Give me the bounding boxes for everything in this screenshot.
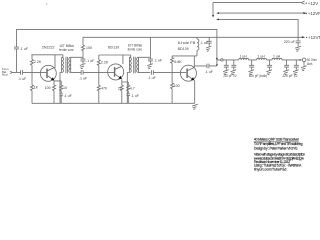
svg-text:2.2K: 2.2K — [34, 60, 42, 64]
node +12V junction dot — [212, 15, 214, 17]
svg-text:220 uF: 220 uF — [284, 40, 296, 44]
svg-text:1 uH: 1 uH — [273, 54, 281, 58]
node LPF input junction dots — [216, 58, 218, 66]
label 1 uH L2 — [258, 54, 266, 58]
label 1 uH L1 — [240, 54, 248, 58]
capacitor 220uF on +12VT — [295, 37, 301, 51]
resistor 22 stage2 emitter — [120, 85, 123, 103]
label 1K — [34, 85, 39, 89]
svg-text:.1 uF: .1 uF — [148, 76, 157, 80]
svg-text:TX RF amplifiers, LPF and T/R: TX RF amplifiers, LPF and T/R switching — [254, 142, 303, 146]
label 470 — [101, 86, 107, 90]
svg-text:Design by : Peter Parker VK3YE: Design by : Peter Parker VK3YE — [254, 147, 298, 151]
capacitor .1uF input coupling — [21, 70, 23, 75]
wire stage3 collector top — [172, 56, 197, 68]
capacitor 220pF C4b — [293, 60, 299, 75]
capacitor .1uF coupling stage1-2 — [81, 70, 83, 75]
label +12V — [306, 1, 319, 6]
label .1 uF stage1 emitter — [64, 94, 73, 98]
svg-text:Mod.: Mod. — [2, 73, 8, 77]
svg-text:+12VT: +12VT — [308, 35, 320, 40]
capacitor .1uF rail bypass left — [14, 47, 19, 72]
svg-text:22: 22 — [118, 86, 122, 90]
svg-text:ferrite core: ferrite core — [128, 47, 143, 51]
antenna output arrowhead — [300, 59, 303, 61]
label .1 uF output — [205, 70, 214, 74]
svg-text:BD139: BD139 — [108, 45, 119, 49]
wire +12VR line — [218, 12, 304, 14]
label +12VT — [306, 35, 320, 40]
+12VR right arrowhead — [303, 12, 306, 14]
resistor 1K stage1 base — [31, 72, 34, 103]
label .1 uF coupling 1-2 — [79, 76, 88, 80]
node From Bal Mod input arrow — [10, 71, 12, 73]
svg-text:470: 470 — [101, 86, 107, 90]
svg-text:1K: 1K — [34, 85, 39, 89]
inductor L1 1uH — [239, 58, 249, 60]
resistor 2.2K stage2 feedback — [97, 55, 100, 72]
wire stage1 collector top — [31, 55, 63, 68]
label 820 pF both — [249, 74, 267, 78]
svg-text:4.7: 4.7 — [130, 86, 135, 90]
resistor 2.2K stage1 feedback — [31, 55, 34, 73]
wire +12VT upper line — [218, 19, 299, 37]
svg-text:BD139: BD139 — [178, 47, 189, 51]
resistor 6.8K stage3 feedback — [171, 56, 174, 73]
label .1 uF bypass — [20, 47, 29, 51]
label 220 uF — [284, 40, 296, 44]
transistor Q1 2N2222 — [40, 65, 56, 81]
label 10T Bifilar ferrite core T1 — [59, 44, 75, 52]
capacitor 220pF C1a — [223, 60, 229, 75]
capacitor 820pF C2 — [249, 60, 255, 75]
resistor 10 stage1 emitter — [60, 85, 63, 93]
label 10 — [63, 86, 67, 90]
Q3 emitter arrow — [191, 77, 195, 80]
label .1 uF coupling 2-3 — [148, 76, 157, 80]
svg-text:.1 uF: .1 uF — [64, 94, 73, 98]
wire +12V top line — [213, 3, 302, 16]
svg-text:100: 100 — [174, 84, 180, 88]
svg-text:.1 uF: .1 uF — [86, 59, 95, 63]
resistor 100 stage3 base — [171, 72, 174, 103]
svg-text:100: 100 — [45, 86, 51, 90]
capacitor .1uF coupling stage2-3 — [151, 70, 153, 75]
wire vertical into LPF — [216, 58, 218, 66]
resistor 100 T1 supply — [82, 37, 85, 57]
svg-text:220 pF X2: 220 pF X2 — [223, 74, 236, 78]
wire LPF main line — [217, 59, 300, 61]
Q1 emitter arrow — [51, 77, 55, 80]
label .1 uF stage2 emitter — [131, 94, 140, 98]
wire input line — [13, 71, 47, 73]
transformer T1 10T bifilar — [60, 55, 83, 104]
label 100 stage3 — [174, 84, 180, 88]
svg-text:1 uH: 1 uH — [240, 54, 248, 58]
label 6.8K — [174, 60, 182, 64]
capacitor .1uF output coupling — [207, 64, 209, 69]
inductor L2 1uH — [257, 58, 267, 60]
node TX out connector circle — [221, 59, 223, 61]
wire Q2 emitter — [122, 79, 129, 85]
title text block — [254, 138, 305, 172]
wire stage2 collector top — [99, 55, 131, 64]
ground bus bottom — [32, 102, 195, 104]
label 50 Ohm Ant — [307, 58, 317, 66]
svg-text:1 uH: 1 uH — [258, 54, 266, 58]
transistor Q2 BD139 — [108, 64, 124, 80]
capacitor 220pF C1b — [231, 60, 237, 75]
svg-text:6.8K: 6.8K — [174, 60, 182, 64]
stray speck top left — [46, 4, 47, 5]
inductor 6-hole FB choke — [197, 37, 199, 56]
wire Q1 emitter — [54, 80, 61, 85]
label BD139 stage2 — [108, 45, 119, 49]
capacitor .1uF stage1 emitter — [60, 94, 63, 103]
label 22 — [118, 86, 122, 90]
svg-text:40 Meters QRP SSB Transceiver: 40 Meters QRP SSB Transceiver — [254, 138, 300, 142]
antenna connector circle — [302, 58, 306, 62]
label .1 uF T1 supply — [86, 59, 95, 63]
capacitor 220pF C4a — [283, 60, 289, 75]
svg-text:.1 uF: .1 uF — [20, 47, 29, 51]
svg-text:100: 100 — [86, 46, 92, 50]
wire stage3 output line — [194, 65, 217, 67]
label .1 uF input — [18, 77, 27, 81]
+12VR arrowhead into node — [216, 12, 219, 14]
inductor L3 1uH — [272, 58, 282, 60]
label 10T Bifilar ferrite core T2 — [128, 43, 144, 51]
capacitor 820pF C3 — [266, 60, 272, 75]
capacitor .1uF T2 supply decoupling — [147, 57, 153, 69]
svg-text:Ant.: Ant. — [307, 62, 313, 66]
label 2.2K stage2 — [101, 60, 109, 64]
+12VT arrowhead into node — [216, 19, 219, 21]
svg-text:6-hole FB: 6-hole FB — [178, 41, 196, 45]
capacitor .1uF stage2 emitter — [127, 94, 130, 104]
transformer T2 10T bifilar — [127, 55, 150, 103]
svg-text:.1 uF: .1 uF — [131, 94, 140, 98]
wire Q3 emitter to ground bus — [193, 80, 196, 103]
label 100 stage1 emitter — [45, 86, 51, 90]
label From Bal. Mod. — [2, 67, 9, 77]
svg-text:+12VR: +12VR — [308, 11, 320, 16]
Q2 emitter arrow — [118, 76, 122, 79]
svg-text:.1 uF: .1 uF — [154, 59, 163, 63]
svg-text:820 pF (both): 820 pF (both) — [249, 74, 267, 78]
ground symbol at bus end — [192, 104, 198, 109]
label +12VR — [306, 11, 320, 16]
svg-text:2N2222: 2N2222 — [42, 46, 55, 50]
label .1 uF T2 supply — [154, 59, 163, 63]
resistor 4.7 stage2 emitter — [127, 85, 130, 93]
wire T2 supply drop — [149, 37, 151, 57]
capacitor .1uF stage3 supply decoupling — [206, 37, 212, 51]
label 4.7 — [130, 86, 135, 90]
svg-text:.1 uF: .1 uF — [79, 76, 88, 80]
svg-text:ferrite core: ferrite core — [59, 48, 74, 52]
resistor 100 stage1 emitter — [53, 85, 56, 103]
+12V left-pointing arrowhead at right end — [302, 1, 305, 4]
svg-text:.1 uF: .1 uF — [205, 70, 214, 74]
resistor 470 stage2 base — [97, 72, 100, 103]
wire +12V rail A (top rail) — [17, 29, 217, 58]
label 220 pF X2 first — [223, 74, 236, 78]
svg-text:220 pF X2: 220 pF X2 — [283, 74, 298, 78]
+12VT right arrowhead at rail B end — [302, 36, 305, 38]
svg-text:10: 10 — [63, 86, 67, 90]
wire base line stage3 — [153, 71, 186, 73]
wire antenna ground stem — [301, 62, 307, 71]
label .1 uF stage3 decoupling — [200, 41, 209, 45]
label 6-hole FB — [178, 41, 196, 45]
wire base line stage2 — [83, 71, 115, 73]
wire +12VT rail B — [83, 36, 302, 38]
svg-text:+12V: +12V — [308, 1, 318, 6]
label 220 pF X2 second — [283, 74, 298, 78]
label BD139 stage3 — [178, 47, 189, 51]
label 1 uH L3 — [273, 54, 281, 58]
svg-text:2.2K: 2.2K — [101, 60, 109, 64]
svg-text:tinyurl.com/TubePad: tinyurl.com/TubePad — [254, 167, 287, 171]
svg-text:.1 uF: .1 uF — [18, 77, 27, 81]
transistor Q3 BD139 — [180, 65, 196, 81]
label 2N2222 — [42, 46, 55, 50]
capacitor .1uF T1 supply decoupling — [80, 57, 86, 68]
label 100 T1 supply — [86, 46, 92, 50]
label 2.2K stage1 — [34, 60, 42, 64]
